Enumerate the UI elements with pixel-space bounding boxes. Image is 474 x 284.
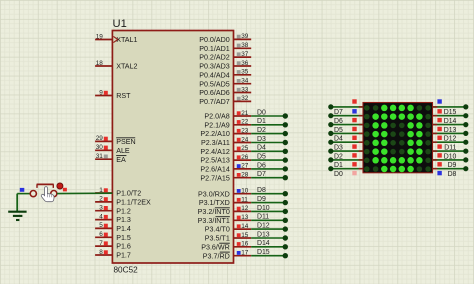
svg-text:D7: D7 [257, 171, 266, 178]
svg-text:D14: D14 [257, 240, 270, 247]
svg-text:RST: RST [116, 92, 131, 100]
svg-text:P2.0/A8: P2.0/A8 [204, 113, 229, 121]
svg-text:P2.7/A15: P2.7/A15 [200, 174, 229, 182]
svg-text:P0.0/AD0: P0.0/AD0 [199, 36, 230, 44]
svg-text:19: 19 [96, 33, 104, 40]
wire net D9 matrix right row 7 [433, 157, 469, 169]
wire net D1 from pin 22 [251, 118, 288, 127]
svg-text:10: 10 [241, 188, 249, 195]
svg-text:P3.7/RD: P3.7/RD [203, 252, 230, 260]
svg-text:D11: D11 [257, 214, 269, 221]
wire net D13 from pin 15 [251, 231, 288, 240]
svg-text:D10: D10 [257, 205, 270, 212]
svg-text:P3.3/INT1: P3.3/INT1 [198, 217, 230, 225]
label U1 [113, 18, 127, 30]
pin 28 (P2.7/A15) [200, 172, 251, 183]
pin 36 (P0.3/AD3) [199, 60, 251, 71]
svg-text:D13: D13 [257, 231, 270, 238]
wire net D6 from pin 27 [251, 162, 288, 171]
wire net D0 from pin 21 [251, 109, 288, 118]
push button (switch) [30, 184, 57, 196]
svg-text:P1.4: P1.4 [116, 225, 131, 233]
node marker matrix top-right pin [437, 99, 441, 103]
wire net D14 matrix right row 2 [433, 113, 469, 125]
svg-text:2: 2 [99, 196, 103, 203]
svg-text:P3.0/RXD: P3.0/RXD [198, 190, 230, 198]
pin 12 (P3.2/INT0) [198, 205, 252, 216]
pin 34 (P0.5/AD5) [199, 78, 251, 89]
svg-text:28: 28 [241, 172, 249, 179]
node marker matrix right pin row 4 [437, 136, 441, 140]
pin 8 (P1.7) [95, 249, 131, 260]
pin 37 (P0.2/AD2) [199, 51, 251, 62]
svg-text:15: 15 [241, 232, 249, 239]
wire net D9 from pin 11 [251, 196, 288, 205]
wire net D15 from pin 17 [251, 249, 288, 258]
wire ground to button [17, 193, 30, 195]
svg-text:P1.2: P1.2 [116, 207, 131, 215]
node marker matrix right pin row 6 [437, 153, 441, 157]
svg-text:22: 22 [241, 119, 249, 126]
node marker matrix left pin row 6 [352, 153, 356, 157]
svg-text:13: 13 [241, 214, 249, 221]
wire net D1 matrix left row 7 [328, 157, 363, 169]
svg-text:P0.4/AD4: P0.4/AD4 [199, 71, 230, 79]
wire net D10 matrix right row 6 [433, 149, 469, 161]
node marker matrix left pin row 4 [352, 136, 356, 140]
wire net D11 matrix right row 5 [433, 140, 469, 152]
pin 11 (P3.1/TXD) [199, 196, 251, 207]
svg-text:6: 6 [99, 231, 103, 238]
node marker matrix right pin row 1 [437, 109, 441, 113]
wire net D11 from pin 13 [251, 214, 288, 223]
svg-text:D9: D9 [257, 196, 266, 203]
svg-text:P0.6/AD6: P0.6/AD6 [199, 89, 230, 97]
svg-text:33: 33 [241, 86, 249, 93]
wire net D0 matrix left row 8 [328, 166, 363, 178]
pin 7 (P1.6) [95, 240, 131, 251]
svg-text:11: 11 [241, 196, 248, 203]
pin 24 (P2.3/A11) [201, 136, 251, 147]
wire net D8 from pin 10 [251, 187, 288, 196]
svg-text:3: 3 [99, 205, 103, 212]
svg-text:26: 26 [241, 154, 249, 161]
svg-text:P0.7/AD7: P0.7/AD7 [199, 98, 230, 106]
svg-text:D1: D1 [257, 118, 266, 125]
svg-text:XTAL1: XTAL1 [116, 36, 137, 44]
svg-text:17: 17 [241, 250, 249, 257]
svg-text:P2.1/A9: P2.1/A9 [204, 121, 229, 129]
svg-text:D3: D3 [257, 136, 266, 143]
pin 32 (P0.7/AD7) [199, 95, 251, 106]
svg-text:D2: D2 [257, 127, 266, 134]
svg-text:P0.1/AD1: P0.1/AD1 [199, 45, 230, 53]
pin 38 (P0.1/AD1) [199, 42, 251, 53]
button actuator (red ball) [57, 183, 63, 189]
node marker button left pin (logic 0) [20, 188, 25, 192]
svg-text:4: 4 [99, 213, 103, 220]
op-amp U1 body (80C52 microcontroller) [112, 31, 233, 264]
wire net D10 from pin 12 [251, 205, 288, 214]
wire net D3 matrix left row 5 [328, 140, 363, 152]
pin 29 (PSEN) [95, 135, 136, 146]
node marker matrix right pin row 7 [437, 162, 441, 166]
svg-text:37: 37 [241, 51, 249, 58]
svg-text:21: 21 [241, 110, 249, 117]
pin 30 (ALE) [95, 144, 130, 155]
wire net D2 from pin 23 [251, 127, 288, 136]
pin 35 (P0.4/AD4) [199, 69, 251, 80]
svg-text:16: 16 [241, 241, 249, 248]
svg-text:D0: D0 [257, 109, 266, 116]
svg-text:D12: D12 [257, 223, 270, 230]
svg-text:P3.6/WR: P3.6/WR [201, 243, 230, 251]
mouse cursor (hand) [41, 187, 54, 202]
svg-text:P2.4/A12: P2.4/A12 [200, 148, 229, 156]
svg-text:P1.5: P1.5 [116, 234, 131, 242]
svg-text:32: 32 [241, 95, 249, 102]
svg-text:P0.3/AD3: P0.3/AD3 [199, 63, 230, 71]
node marker matrix left pin row 7 [352, 162, 356, 166]
pin 4 (P1.3) [95, 213, 131, 224]
svg-text:P1.3: P1.3 [116, 216, 131, 224]
wire net D6 matrix left row 2 [328, 113, 363, 125]
node marker matrix right pin row 5 [437, 144, 441, 148]
node marker matrix left pin row 5 [352, 144, 356, 148]
svg-text:P3.4/T0: P3.4/T0 [205, 226, 230, 234]
pin 27 (P2.6/A14) [200, 163, 251, 174]
svg-text:D0: D0 [334, 171, 343, 178]
svg-text:30: 30 [96, 144, 104, 151]
svg-text:D15: D15 [257, 249, 270, 256]
svg-text:P2.3/A11: P2.3/A11 [201, 139, 230, 147]
pin 33 (P0.6/AD6) [199, 86, 251, 97]
svg-text:24: 24 [241, 136, 249, 143]
svg-text:D6: D6 [257, 162, 266, 169]
svg-text:35: 35 [241, 69, 249, 76]
svg-text:8: 8 [99, 249, 103, 256]
svg-text:PSEN: PSEN [116, 138, 135, 146]
wire net D8 matrix right row 8 [433, 166, 469, 178]
svg-text:P1.7: P1.7 [116, 252, 131, 260]
wire net D12 from pin 14 [251, 223, 288, 232]
node marker button right pin (logic 1) [63, 188, 67, 192]
pin 26 (P2.5/A13) [200, 154, 251, 165]
node marker matrix left pin row 1 [352, 109, 356, 113]
svg-text:29: 29 [96, 135, 104, 142]
svg-text:P1.0/T2: P1.0/T2 [116, 190, 141, 198]
svg-text:P2.5/A13: P2.5/A13 [200, 157, 229, 165]
pin 19 (XTAL1) [95, 33, 137, 44]
pin 1 (P1.0/T2) [95, 187, 141, 198]
svg-text:27: 27 [241, 163, 249, 170]
LED matrix LM1 body (8x8 green) [363, 103, 433, 173]
svg-text:P0.2/AD2: P0.2/AD2 [199, 54, 230, 62]
node marker matrix right pin row 3 [437, 127, 441, 131]
node marker matrix left pin row 3 [352, 127, 356, 131]
wire net D15 matrix right row 1 [433, 104, 469, 116]
LED dots 8x8 [364, 105, 431, 173]
svg-text:36: 36 [241, 60, 249, 67]
pin 5 (P1.4) [95, 222, 131, 233]
ground [8, 194, 26, 220]
pin 3 (P1.2) [95, 205, 131, 216]
pin 25 (P2.4/A12) [200, 145, 251, 156]
svg-text:5: 5 [99, 222, 103, 229]
svg-text:P2.2/A10: P2.2/A10 [200, 130, 229, 138]
svg-text:P3.2/INT0: P3.2/INT0 [198, 208, 230, 216]
svg-text:D8: D8 [257, 187, 266, 194]
svg-text:23: 23 [241, 127, 249, 134]
svg-text:D5: D5 [257, 154, 266, 161]
svg-text:P2.6/A14: P2.6/A14 [200, 166, 229, 174]
pin 39 (P0.0/AD0) [199, 33, 251, 44]
pin 10 (P3.0/RXD) [198, 188, 251, 199]
pin 14 (P3.4/T0) [205, 223, 251, 234]
pin 2 (P1.1/T2EX) [95, 196, 151, 207]
wire net D4 matrix left row 4 [328, 131, 363, 143]
svg-text:U1: U1 [113, 18, 127, 30]
node marker matrix left pin row 8 [352, 171, 356, 175]
pin 9 (RST) [95, 89, 131, 100]
wire net D2 matrix left row 6 [328, 149, 363, 161]
wire net D3 from pin 24 [251, 136, 288, 145]
svg-text:7: 7 [99, 240, 103, 247]
node marker matrix right pin row 2 [437, 118, 441, 122]
svg-text:P3.5/T1: P3.5/T1 [205, 235, 230, 243]
pin 16 (P3.6/WR) [201, 241, 251, 252]
value label 80C52 [114, 266, 139, 275]
wire net D12 matrix right row 4 [433, 131, 469, 143]
svg-text:EA: EA [116, 156, 126, 164]
svg-text:XTAL2: XTAL2 [116, 63, 137, 71]
node marker matrix top-left pin [352, 99, 356, 103]
svg-text:12: 12 [241, 205, 249, 212]
pin 15 (P3.5/T1) [205, 232, 251, 243]
svg-text:9: 9 [99, 89, 103, 96]
wire net D4 from pin 25 [251, 145, 288, 154]
pin 18 (XTAL2) [95, 60, 137, 71]
svg-text:D4: D4 [257, 145, 266, 152]
svg-text:P1.6: P1.6 [116, 243, 131, 251]
svg-text:31: 31 [96, 153, 104, 160]
pin 6 (P1.5) [95, 231, 131, 242]
wire net D5 from pin 26 [251, 154, 288, 163]
svg-text:P0.5/AD5: P0.5/AD5 [199, 80, 230, 88]
svg-text:34: 34 [241, 78, 249, 85]
wire net D7 matrix left row 1 [328, 104, 363, 116]
pin 22 (P2.1/A9) [204, 119, 251, 130]
node marker matrix right pin row 8 [437, 171, 441, 175]
svg-text:14: 14 [241, 223, 249, 230]
svg-text:ALE: ALE [116, 147, 130, 155]
pin 23 (P2.2/A10) [200, 127, 251, 138]
svg-text:P3.1/TXD: P3.1/TXD [199, 199, 230, 207]
pin 21 (P2.0/A8) [204, 110, 251, 121]
svg-text:D8: D8 [448, 171, 457, 178]
svg-text:80C52: 80C52 [114, 266, 139, 275]
pin 31 (EA) [95, 153, 126, 164]
pin 13 (P3.3/INT1) [198, 214, 252, 225]
svg-text:38: 38 [241, 42, 249, 49]
wire button to pin 1 [57, 192, 112, 194]
svg-text:39: 39 [241, 33, 249, 40]
wire net D5 matrix left row 3 [328, 122, 363, 134]
wire net D13 matrix right row 3 [433, 122, 469, 134]
wire net D14 from pin 16 [251, 240, 288, 249]
svg-text:18: 18 [96, 60, 104, 67]
node marker matrix left pin row 2 [352, 118, 356, 122]
wire net D7 from pin 28 [251, 171, 288, 180]
svg-text:25: 25 [241, 145, 249, 152]
svg-text:P1.1/T2EX: P1.1/T2EX [116, 199, 151, 207]
pin 17 (P3.7/RD) [203, 250, 251, 261]
